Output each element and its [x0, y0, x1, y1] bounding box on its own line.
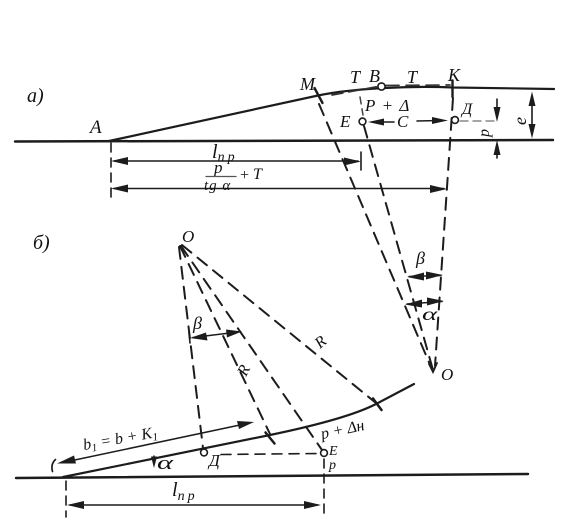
dashed line O to tick1 (fig b): [180, 246, 270, 434]
svg-text:Т: Т: [407, 67, 419, 87]
e dimension double arrow: [531, 97, 533, 133]
dashed line M to O (fig a): [319, 104, 431, 367]
turnout branch line A-M and curve M-K with tangent continuation: [109, 87, 554, 141]
svg-text:О: О: [441, 365, 453, 384]
label alpha (fig b): [157, 453, 174, 474]
dashed line O to E (fig b): [181, 246, 322, 450]
svg-text:R: R: [234, 362, 254, 380]
tangent dash K-side of vertex B: [386, 84, 450, 87]
svg-text:β: β: [192, 313, 202, 333]
beta dimension arrow (fig b): [193, 332, 238, 338]
tick2 on curve (fig b): [373, 399, 382, 411]
p dimension upper arrow (pointing down): [496, 99, 498, 114]
svg-text:Е: Е: [328, 444, 338, 459]
dimension line l_pr (fig b): [70, 504, 318, 506]
vertex point B circle: [378, 83, 385, 90]
extension dashed line below A: [110, 143, 112, 197]
dashed extension below E (fig b): [323, 459, 325, 518]
svg-text:а): а): [27, 85, 44, 107]
dimension C right arrow: [417, 120, 440, 123]
alpha angle arrow (fig b): [153, 456, 155, 461]
svg-text:tg α: tg α: [204, 178, 231, 194]
baseline of straight track (figure b): [16, 474, 528, 478]
dashed line K to O (fig a): [435, 98, 453, 366]
svg-text:А: А: [88, 117, 102, 138]
point E circle (fig a): [359, 118, 366, 125]
svg-text:М: М: [299, 74, 316, 94]
svg-text:Т: Т: [253, 166, 263, 183]
svg-text:Е: Е: [339, 112, 351, 131]
dashed leader line from D to the right: [460, 120, 498, 122]
svg-text:С: С: [397, 112, 409, 131]
dashed line O to tick2 (fig b): [182, 245, 376, 403]
svg-text:е: е: [510, 117, 530, 125]
dimension line l_pr (fig a): [114, 160, 358, 162]
svg-text:b1 = b + К1: b1 = b + К1: [82, 424, 159, 456]
point D circle (fig a): [452, 117, 459, 124]
fraction bar: [206, 176, 236, 178]
svg-text:lпр: lпр: [172, 479, 198, 504]
svg-text:+: +: [239, 167, 250, 184]
tangent dash M-side of vertex B: [332, 87, 378, 96]
dashed line D to E (fig b): [221, 454, 318, 455]
converging v mark at O (fig a): [429, 363, 437, 372]
point E circle (fig b): [321, 450, 328, 457]
point D circle (fig b): [201, 449, 208, 456]
tick mark at K: [451, 81, 453, 98]
p dimension lower arrow (pointing up): [496, 148, 498, 158]
small tick at start of b1 arrow: [52, 460, 56, 472]
dashed line O to D (fig b): [179, 247, 203, 448]
svg-text:б): б): [33, 232, 50, 254]
svg-text:О: О: [182, 227, 194, 246]
tick mark at M: [315, 88, 323, 103]
svg-text:р: р: [476, 129, 493, 138]
svg-text:R: R: [311, 333, 330, 353]
svg-text:р: р: [213, 158, 223, 177]
tick1 on curve (fig b): [266, 433, 275, 444]
svg-text:р: р: [328, 458, 336, 473]
svg-text:α: α: [422, 305, 438, 324]
beta dimension arrows (fig a): [409, 276, 441, 277]
tick at right end of l_pr: [360, 152, 362, 170]
alpha dimension arrows (fig a): [407, 302, 442, 305]
label alpha (fig a): [422, 305, 438, 324]
tick at left end of beta arrow (fig b): [189, 333, 190, 343]
left extension dashed line (fig b dimension): [65, 481, 67, 517]
short dashed line B to E: [360, 97, 363, 115]
svg-text:Т: Т: [350, 67, 362, 87]
dimension line p/tg(a)+T: [114, 188, 444, 190]
dimension C left arrow: [372, 121, 394, 123]
svg-text:Д: Д: [460, 101, 473, 118]
turnout line with curve (figure b): [63, 384, 414, 477]
svg-text:К: К: [447, 65, 461, 85]
b1 length double arrow: [70, 424, 247, 462]
svg-text:В: В: [369, 66, 380, 86]
svg-text:Д: Д: [207, 451, 221, 470]
svg-text:α: α: [157, 453, 174, 474]
svg-text:β: β: [415, 248, 425, 268]
baseline of straight track (figure a): [15, 140, 553, 142]
dashed line E to O (fig a): [364, 126, 433, 370]
